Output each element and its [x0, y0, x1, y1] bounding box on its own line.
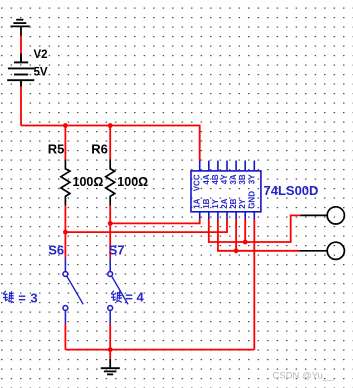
wire rail to R6 [109, 126, 111, 160]
ground (bottom) [101, 359, 120, 374]
pin 2Y bottom [244, 212, 246, 219]
svg-text:4A: 4A [202, 174, 211, 184]
node R6-1A wire [108, 221, 113, 226]
svg-text:74LS00D: 74LS00D [264, 183, 319, 198]
svg-text:100Ω: 100Ω [73, 175, 104, 189]
battery V2 [7, 54, 34, 87]
pin GND bottom [253, 212, 255, 219]
pin 1A bottom [199, 212, 201, 219]
switch S7 [108, 258, 128, 324]
svg-text:4: 4 [137, 290, 145, 305]
wire R6 to S7 [109, 206, 111, 258]
ground (top, flipped) [11, 20, 30, 36]
svg-text:1B: 1B [202, 198, 211, 208]
wire S6 to bottom rail [64, 324, 66, 350]
pin 2B bottom [235, 212, 237, 219]
pin 4B top [217, 161, 219, 171]
node 2Y-1B [243, 240, 248, 245]
wire bottom rail [65, 349, 254, 351]
svg-text:3A: 3A [229, 174, 238, 184]
pin 3A top [235, 161, 237, 171]
terminal J1 [327, 207, 344, 224]
wire node to ground [109, 350, 111, 359]
node 2B-1Y [234, 248, 239, 253]
resistor R6 [106, 159, 115, 205]
pin 1Y bottom [217, 212, 219, 219]
wire ground to battery [20, 36, 22, 54]
wire R5 node to pin 2A [65, 219, 227, 232]
terminal J2 lead [299, 250, 327, 252]
node rail-R5 [63, 123, 68, 128]
terminal J1 lead [300, 214, 327, 216]
svg-text:=: = [18, 290, 26, 305]
pin 4A top [208, 161, 210, 171]
svg-text:4Y: 4Y [220, 174, 229, 184]
svg-text:S7: S7 [109, 242, 125, 257]
pin VCC top [199, 161, 201, 171]
wire 1Y to 2B to terminal2 [218, 219, 299, 251]
wire 2B stub [235, 219, 237, 251]
pin 1B bottom [208, 212, 210, 219]
svg-text:VCC: VCC [193, 174, 202, 191]
wire rail to R5 [64, 126, 66, 160]
svg-text:2A: 2A [220, 198, 229, 208]
wire R6 node to pin 1A [110, 219, 200, 223]
svg-text:1A: 1A [193, 198, 202, 208]
pin 2A bottom [226, 212, 228, 219]
wire GND pin to bottom rail [253, 219, 255, 350]
svg-text:=: = [125, 290, 133, 305]
label key=4 [111, 291, 122, 303]
svg-text:R6: R6 [91, 142, 108, 157]
svg-text:1Y: 1Y [211, 198, 220, 208]
pin 3B top [244, 161, 246, 171]
svg-text:CSDN @Yu__: CSDN @Yu__ [273, 371, 335, 382]
node rail-R6 [108, 123, 113, 128]
terminal J2 [327, 242, 344, 259]
svg-text:GND: GND [247, 191, 256, 209]
wire 2Y stub [244, 219, 246, 242]
wire top rail [21, 126, 200, 161]
pin 3Y top [253, 161, 255, 171]
wire S7 to bottom rail [109, 324, 111, 350]
svg-text:100Ω: 100Ω [117, 175, 148, 189]
switch S6 [63, 258, 83, 324]
svg-text:3Y: 3Y [247, 174, 256, 184]
svg-text:2B: 2B [229, 198, 238, 208]
wire R5 to S6 [64, 206, 66, 258]
label key=3 [3, 291, 14, 303]
svg-text:V2: V2 [34, 49, 48, 61]
svg-text:5V: 5V [34, 67, 48, 79]
node rail-ground [108, 347, 113, 352]
svg-text:S6: S6 [48, 242, 64, 257]
node R5-2A wire [63, 230, 68, 235]
svg-text:3: 3 [30, 290, 37, 305]
svg-text:4B: 4B [211, 174, 220, 184]
wire 1B to 2Y to terminal1 [209, 215, 300, 242]
svg-text:3B: 3B [238, 174, 247, 184]
pin 4Y top [226, 161, 228, 171]
resistor R5 [61, 159, 70, 205]
wire battery to top rail [20, 87, 22, 126]
svg-text:2Y: 2Y [238, 198, 247, 208]
op-amp U1 74LS00D body [191, 171, 261, 212]
svg-text:R5: R5 [48, 142, 65, 157]
